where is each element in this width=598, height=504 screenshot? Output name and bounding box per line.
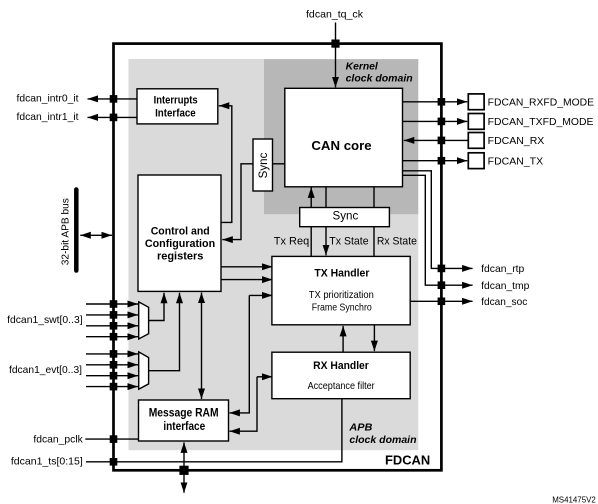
junction fdcan_intr0_it (110, 95, 118, 103)
wire fdcan1_swt line 0 (86, 303, 138, 305)
sync box horizontal (300, 208, 390, 227)
junction bottom message RAM line (179, 466, 188, 475)
wire fdcan_intr1_it (88, 116, 138, 118)
wire Rx State (373, 187, 375, 257)
wire FDCAN_RXFD_MODE (402, 101, 467, 103)
svg-text:RX Handler: RX Handler (313, 360, 369, 372)
port box FDCAN_TXFD_MODE (468, 114, 484, 130)
32-bit APB bus bar (74, 190, 79, 271)
svg-text:Message RAM: Message RAM (149, 407, 219, 420)
svg-text:fdcan_tmp: fdcan_tmp (481, 281, 529, 292)
wire control registers / message RAM interface double arrow (201, 293, 203, 346)
svg-text:Tx Req: Tx Req (274, 235, 309, 247)
svg-text:registers: registers (157, 250, 204, 262)
junction fdcan1_swt line 1 (110, 311, 118, 319)
port box FDCAN_TX (468, 153, 484, 169)
wire TX handler / message RAM interface (249, 294, 272, 296)
wire fdcan1_swt line 1 (86, 314, 138, 316)
CAN core box (285, 88, 403, 187)
svg-text:clock domain: clock domain (349, 434, 416, 446)
svg-text:fdcan1_ts[0:15]: fdcan1_ts[0:15] (11, 457, 83, 468)
mux for fdcan1_swt (139, 302, 149, 339)
control and configuration registers box (138, 175, 221, 291)
wire message RAM interface to external (bottom) (183, 442, 185, 466)
svg-text:Kernel: Kernel (346, 60, 379, 72)
wire RX handler / message RAM interface (257, 376, 273, 378)
wire TX handler to RX handler (373, 325, 375, 351)
junction fdcan1_swt line 3 (110, 333, 118, 341)
svg-text:Sync: Sync (258, 152, 270, 178)
junction fdcan_soc (438, 298, 446, 306)
wire fdcan1_swt line 3 (86, 336, 138, 338)
junction fdcan1_evt line 2 (110, 372, 118, 380)
wire RX handler to TX handler (342, 326, 344, 352)
junction FDCAN_TXFD_MODE (438, 118, 446, 126)
wire fdcan1_swt line 2 (86, 325, 138, 327)
mux for fdcan1_evt (139, 352, 149, 389)
svg-text:fdcan1_swt[0..3]: fdcan1_swt[0..3] (7, 315, 83, 326)
wire fdcan_tq_ck to CAN core (335, 23, 337, 88)
junction FDCAN_RX (438, 137, 446, 145)
wire Tx Req (310, 187, 312, 256)
wire control registers to TX handler lower (221, 279, 273, 281)
wire fdcan1_ts (86, 399, 342, 462)
wire FDCAN_RX (404, 139, 469, 141)
junction fdcan1_evt line 3 (110, 383, 118, 391)
wire fdcan_tmp (402, 175, 472, 285)
svg-text:Rx State: Rx State (377, 235, 417, 247)
svg-text:Configuration: Configuration (145, 238, 216, 250)
svg-text:fdcan_rtp: fdcan_rtp (481, 264, 524, 275)
wire fdcan1_evt line 0 (86, 353, 138, 355)
sync box vertical (253, 139, 273, 191)
wire control registers to interrupts interface (219, 106, 232, 223)
junction fdcan1_swt line 2 (110, 322, 118, 330)
svg-text:FDCAN_RX: FDCAN_RX (488, 136, 545, 147)
junction fdcan1_evt line 0 (110, 350, 118, 358)
svg-text:fdcan_pclk: fdcan_pclk (33, 434, 83, 445)
junction fdcan_pclk (110, 435, 118, 443)
junction fdcan1_evt line 1 (110, 361, 118, 369)
wire fdcan_pclk (85, 438, 139, 440)
APB clock domain light gray region (129, 59, 419, 450)
wire fdcan_rtp (402, 171, 472, 269)
svg-text:fdcan1_evt[0..3]: fdcan1_evt[0..3] (9, 365, 82, 376)
svg-text:clock domain: clock domain (346, 73, 413, 85)
wire control registers to TX handler upper (221, 266, 273, 268)
Kernel clock domain dark gray region (264, 59, 418, 214)
svg-text:MS41475V2: MS41475V2 (552, 495, 596, 504)
message RAM interface box (139, 400, 229, 441)
svg-text:Tx State: Tx State (329, 235, 368, 247)
svg-text:Interrupts: Interrupts (154, 94, 198, 106)
wire Tx State (325, 187, 327, 256)
wire FDCAN_TXFD_MODE (402, 120, 467, 122)
svg-text:CAN core: CAN core (311, 138, 371, 153)
junction FDCAN_RXFD_MODE (438, 98, 446, 106)
wire CAN core through sync to control registers (222, 164, 284, 240)
FDCAN outer frame (114, 44, 442, 471)
svg-text:fdcan_soc: fdcan_soc (481, 297, 527, 308)
svg-text:Interface: Interface (155, 108, 196, 120)
svg-text:FDCAN_RXFD_MODE: FDCAN_RXFD_MODE (488, 98, 594, 109)
svg-text:TX prioritization: TX prioritization (309, 290, 374, 301)
junction fdcan1_swt line 0 (110, 300, 118, 308)
wire 32-bit APB bus double arrow (96, 234, 112, 236)
svg-text:FDCAN: FDCAN (385, 452, 430, 467)
svg-text:interface: interface (163, 420, 205, 433)
wire fdcan_soc (410, 300, 472, 302)
interrupts interface box (137, 89, 218, 124)
port box FDCAN_RX (468, 133, 484, 149)
svg-text:Frame Synchro: Frame Synchro (312, 302, 372, 313)
svg-text:fdcan_tq_ck: fdcan_tq_ck (306, 10, 364, 21)
junction fdcan_intr1_it (110, 114, 118, 122)
junction FDCAN_TX (438, 157, 446, 165)
svg-text:32-bit APB bus: 32-bit APB bus (60, 198, 72, 265)
junction fdcan_tmp (438, 281, 446, 289)
svg-text:Control and: Control and (151, 226, 210, 238)
svg-text:FDCAN_TX: FDCAN_TX (488, 157, 544, 168)
svg-text:Acceptance filter: Acceptance filter (308, 381, 376, 392)
wire evt mux output to control registers (149, 293, 180, 371)
svg-text:fdcan_intr0_it: fdcan_intr0_it (17, 94, 79, 105)
svg-text:fdcan_intr1_it: fdcan_intr1_it (17, 112, 79, 123)
wire fdcan1_evt line 2 (86, 375, 138, 377)
wire fdcan1_evt line 1 (86, 364, 138, 366)
wire swt mux output to control registers (149, 293, 164, 321)
junction top fdcan_tq_ck (331, 40, 339, 48)
svg-text:FDCAN_TXFD_MODE: FDCAN_TXFD_MODE (488, 117, 594, 128)
junction fdcan1_ts (110, 458, 118, 466)
svg-text:Sync: Sync (333, 211, 359, 223)
svg-text:APB: APB (348, 422, 372, 434)
junction fdcan_rtp (438, 265, 446, 273)
RX handler box (272, 352, 410, 399)
TX handler box (272, 256, 410, 324)
port box FDCAN_RXFD_MODE (468, 94, 484, 110)
svg-text:TX Handler: TX Handler (314, 267, 370, 279)
wire FDCAN_TX (402, 160, 467, 162)
wire fdcan_intr0_it (88, 98, 138, 100)
wire fdcan1_evt line 3 (86, 386, 138, 388)
